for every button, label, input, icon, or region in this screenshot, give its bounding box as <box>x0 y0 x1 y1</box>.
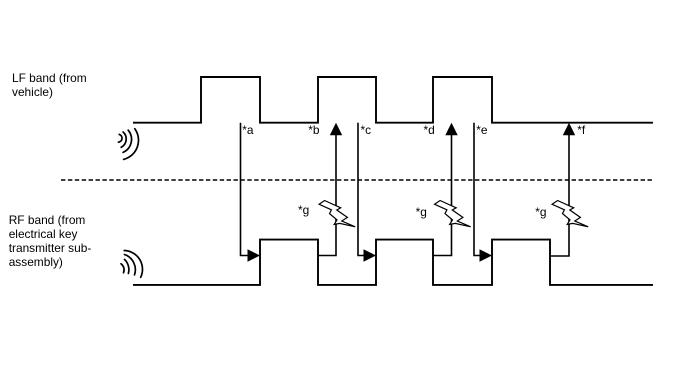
RF antenna wave icon <box>121 251 142 278</box>
arrow *b <box>318 123 342 256</box>
label *b <box>308 123 319 137</box>
lightning bolt 2 <box>435 201 471 227</box>
lightning bolt 3 <box>552 201 588 227</box>
label *g 2 <box>416 205 427 219</box>
RF waveform <box>133 240 653 285</box>
label *f <box>577 123 585 137</box>
LF antenna wave icon <box>118 129 138 160</box>
label *g 3 <box>535 205 546 219</box>
LF waveform <box>133 77 653 123</box>
label *g 1 <box>298 203 309 217</box>
arrow *d <box>433 123 458 256</box>
LF band label <box>12 71 87 100</box>
dashed boundary line <box>61 179 653 181</box>
label *c <box>361 123 372 137</box>
arrow *f <box>550 123 575 256</box>
arrow *e <box>474 123 492 262</box>
label *e <box>476 123 487 137</box>
lightning bolt 1 <box>319 201 355 227</box>
label *a <box>242 123 253 137</box>
arrow *a <box>241 123 261 262</box>
arrow *c <box>358 123 376 262</box>
RF band label <box>9 213 92 270</box>
label *d <box>424 123 435 137</box>
